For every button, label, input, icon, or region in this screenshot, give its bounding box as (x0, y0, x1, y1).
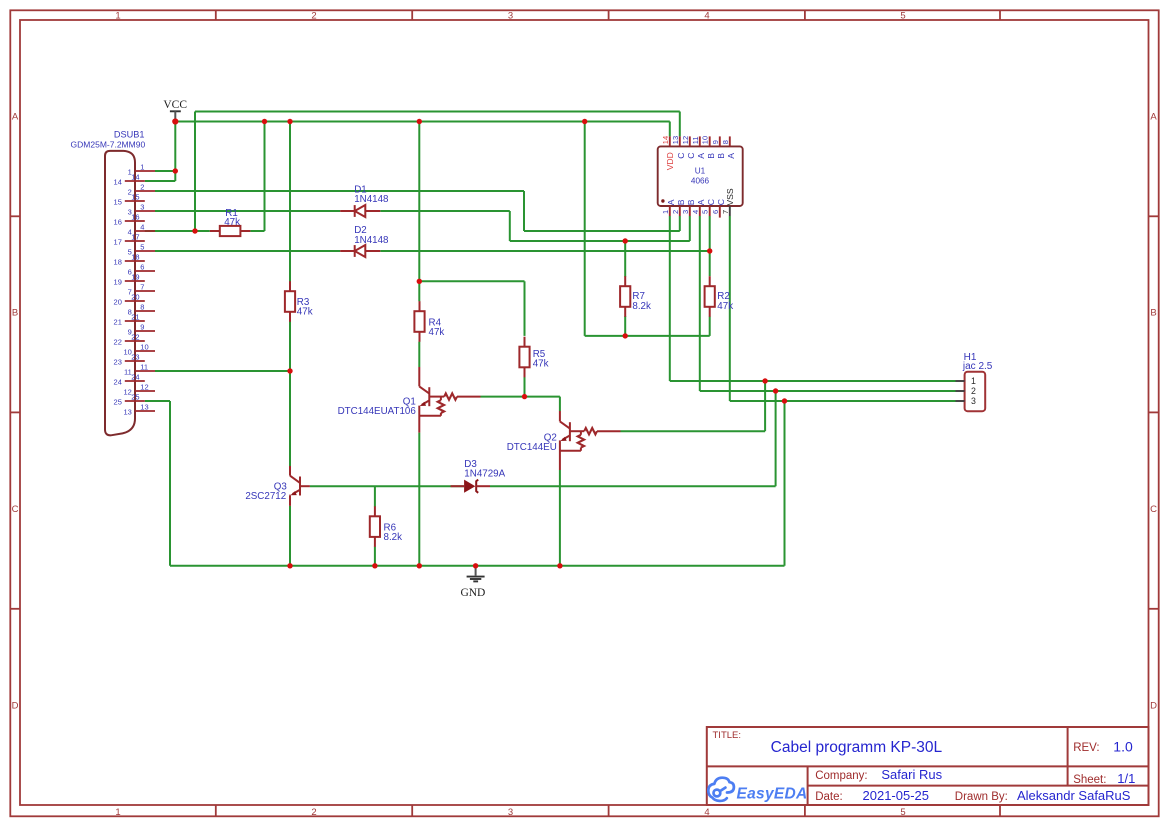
svg-text:17: 17 (114, 237, 122, 246)
svg-text:VDD: VDD (665, 152, 675, 170)
svg-text:GND: GND (460, 587, 485, 599)
svg-text:12: 12 (140, 382, 148, 391)
svg-text:1.0: 1.0 (1113, 738, 1133, 754)
svg-text:VSS: VSS (725, 188, 735, 205)
svg-text:10: 10 (701, 136, 710, 144)
svg-text:22: 22 (131, 332, 139, 341)
svg-text:jac 2.5: jac 2.5 (962, 361, 993, 372)
svg-text:A: A (696, 153, 706, 159)
svg-text:DTC144EUAT106: DTC144EUAT106 (338, 406, 417, 417)
svg-text:Drawn By:: Drawn By: (955, 791, 1008, 803)
svg-text:C: C (1150, 504, 1157, 515)
svg-text:3: 3 (508, 807, 513, 818)
svg-text:11: 11 (691, 136, 700, 144)
svg-text:8.2k: 8.2k (384, 532, 403, 543)
svg-text:21: 21 (131, 312, 139, 321)
svg-text:DSUB1: DSUB1 (114, 130, 145, 140)
svg-text:12: 12 (681, 136, 690, 144)
svg-text:24: 24 (114, 377, 122, 386)
svg-text:14: 14 (114, 177, 122, 186)
svg-text:Cabel programm KP-30L: Cabel programm KP-30L (771, 739, 943, 756)
svg-text:Date:: Date: (815, 791, 843, 803)
svg-text:23: 23 (131, 352, 139, 361)
svg-text:1: 1 (115, 10, 120, 21)
svg-text:8: 8 (721, 140, 730, 144)
svg-text:22: 22 (114, 337, 122, 346)
svg-text:17: 17 (131, 232, 139, 241)
svg-text:6: 6 (711, 210, 720, 214)
svg-text:7: 7 (721, 210, 730, 214)
svg-text:2021-05-25: 2021-05-25 (863, 788, 930, 803)
svg-text:24: 24 (131, 372, 139, 381)
svg-text:1: 1 (971, 376, 976, 386)
svg-text:4: 4 (691, 210, 700, 214)
svg-text:21: 21 (114, 317, 122, 326)
svg-text:3: 3 (508, 10, 513, 21)
svg-text:4: 4 (704, 807, 709, 818)
svg-text:19: 19 (131, 272, 139, 281)
svg-text:2: 2 (971, 386, 976, 396)
svg-text:47k: 47k (533, 359, 549, 370)
svg-text:C: C (706, 199, 716, 205)
svg-text:1: 1 (661, 210, 670, 214)
svg-text:47k: 47k (429, 327, 445, 338)
svg-text:13: 13 (140, 402, 148, 411)
svg-text:3: 3 (140, 202, 144, 211)
svg-text:18: 18 (131, 252, 139, 261)
svg-text:25: 25 (131, 392, 139, 401)
svg-text:10: 10 (140, 342, 148, 351)
svg-text:B: B (12, 307, 18, 318)
svg-text:A: A (666, 199, 676, 205)
svg-text:B: B (1150, 307, 1156, 318)
svg-text:REV:: REV: (1073, 742, 1099, 754)
svg-text:GDM25M-7.2MM90: GDM25M-7.2MM90 (71, 140, 146, 150)
svg-text:47k: 47k (717, 301, 733, 312)
svg-text:1N4729A: 1N4729A (464, 469, 505, 480)
svg-text:14: 14 (131, 172, 139, 181)
svg-text:2SC2712: 2SC2712 (245, 491, 286, 502)
svg-text:16: 16 (131, 212, 139, 221)
svg-text:4: 4 (704, 10, 709, 21)
svg-text:EasyEDA: EasyEDA (737, 786, 808, 803)
svg-text:D: D (1150, 700, 1157, 711)
svg-text:5: 5 (140, 242, 144, 251)
svg-text:47k: 47k (224, 217, 240, 228)
svg-text:15: 15 (131, 192, 139, 201)
svg-text:B: B (716, 153, 726, 159)
svg-text:1: 1 (115, 807, 120, 818)
svg-text:23: 23 (114, 357, 122, 366)
svg-text:3: 3 (971, 396, 976, 406)
svg-text:1: 1 (140, 162, 144, 171)
svg-text:14: 14 (661, 136, 670, 144)
svg-text:A: A (12, 111, 19, 122)
svg-text:5: 5 (900, 807, 905, 818)
svg-text:9: 9 (140, 322, 144, 331)
svg-text:8.2k: 8.2k (632, 301, 651, 312)
svg-text:B: B (706, 153, 716, 159)
svg-text:1N4148: 1N4148 (354, 194, 389, 205)
svg-text:2: 2 (671, 210, 680, 214)
svg-text:6: 6 (140, 262, 144, 271)
svg-text:TITLE:: TITLE: (713, 730, 742, 741)
svg-text:4066: 4066 (691, 176, 710, 185)
svg-text:7: 7 (140, 282, 144, 291)
svg-text:20: 20 (131, 292, 139, 301)
svg-text:DTC144EU: DTC144EU (507, 442, 557, 453)
svg-text:18: 18 (114, 257, 122, 266)
svg-text:19: 19 (114, 277, 122, 286)
svg-text:C: C (676, 153, 686, 159)
svg-text:16: 16 (114, 217, 122, 226)
svg-text:47k: 47k (297, 307, 313, 318)
svg-text:C: C (686, 153, 696, 159)
svg-text:C: C (12, 504, 19, 515)
svg-text:Sheet:: Sheet: (1073, 774, 1106, 786)
svg-text:5: 5 (900, 10, 905, 21)
svg-text:5: 5 (701, 210, 710, 214)
svg-text:8: 8 (140, 302, 144, 311)
svg-text:A: A (696, 199, 706, 205)
svg-text:25: 25 (114, 397, 122, 406)
svg-text:B: B (676, 199, 686, 205)
svg-text:2: 2 (311, 10, 316, 21)
svg-text:13: 13 (671, 136, 680, 144)
svg-text:20: 20 (114, 297, 122, 306)
svg-text:1/1: 1/1 (1117, 771, 1135, 786)
svg-text:A: A (726, 153, 736, 159)
svg-text:Aleksandr SafaRuS: Aleksandr SafaRuS (1017, 788, 1131, 803)
svg-text:15: 15 (114, 197, 122, 206)
svg-text:11: 11 (140, 362, 148, 371)
svg-text:4: 4 (140, 222, 144, 231)
svg-text:1N4148: 1N4148 (354, 235, 389, 246)
svg-text:VCC: VCC (163, 99, 187, 111)
svg-text:2: 2 (140, 182, 144, 191)
svg-text:D: D (12, 700, 19, 711)
svg-text:Safari Rus: Safari Rus (881, 767, 942, 782)
svg-text:Company:: Company: (815, 770, 867, 782)
svg-text:A: A (1150, 111, 1157, 122)
svg-text:U1: U1 (695, 167, 706, 176)
svg-text:3: 3 (681, 210, 690, 214)
svg-text:9: 9 (711, 140, 720, 144)
svg-text:2: 2 (311, 807, 316, 818)
svg-text:B: B (686, 199, 696, 205)
svg-text:13: 13 (123, 407, 131, 416)
